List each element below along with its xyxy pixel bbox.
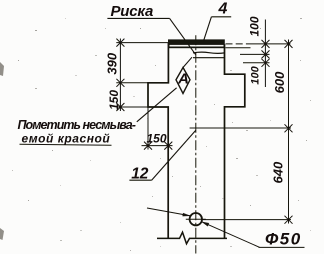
tick at (265.5,62.8) (262, 59, 270, 67)
hole horizontal center tick (186, 218, 206, 220)
F50 leader underline (259, 246, 305, 248)
svg-text:150: 150 (147, 132, 167, 146)
mark line (riska) at centerline, wavy (193, 52, 225, 53)
tick at (120.4,82.8) (116, 79, 124, 87)
diamond leader up to mark line (183, 57, 192, 67)
extension from wavy mark (240, 53, 270, 55)
extension line at hole center level (202, 219, 291, 221)
Riska label underline (107, 17, 169, 19)
tick at (120.4,107) (116, 103, 124, 111)
left dimension line (119, 39, 121, 112)
arrowhead upper-left of hole (183, 213, 190, 216)
svg-text:4: 4 (218, 1, 228, 18)
svg-text:Ф50: Ф50 (265, 229, 302, 248)
right 100s dimension line (264, 20, 266, 88)
12 label underline (129, 179, 151, 181)
svg-text:100: 100 (250, 65, 262, 84)
svg-text:Пометить несмыва-: Пометить несмыва- (18, 118, 136, 132)
diameter leader line upper-left segment (147, 208, 190, 216)
tick at (288.5,43.9) (285, 40, 293, 48)
tick at (168.3,145.6) (164, 142, 172, 150)
note underline (20, 143, 112, 146)
svg-text:емой красной: емой красной (22, 131, 111, 145)
diamond leader down to note (137, 88, 177, 122)
tick at (120.4,42.6) (116, 39, 124, 47)
tick at (288.5,128.3) (285, 124, 293, 132)
extension line from column top right (249, 43, 291, 45)
column bottom break line (157, 232, 227, 244)
scan artifact left edge lower (0, 228, 4, 240)
extension line corbel top (116, 82, 148, 84)
tick at (148,145.6) (144, 142, 152, 150)
riska bar (painted mark, item 4) (168, 39, 225, 48)
Riska leader to mark line (170, 18, 196, 54)
vertical centerline (axis 12) (195, 35, 197, 253)
extension line from column top right (dashed start) (226, 43, 250, 45)
extension lower mark (243, 62, 270, 64)
svg-text:600: 600 (272, 71, 287, 93)
600-640 dimension line (288, 40, 290, 224)
scan artifact left edge upper (0, 62, 4, 76)
item 4 leader to bar (203, 17, 211, 42)
hole circle (190, 213, 202, 225)
svg-text:390: 390 (105, 52, 120, 74)
svg-text:150: 150 (107, 90, 121, 110)
12 leader to axis (152, 130, 196, 180)
svg-text:А: А (177, 71, 189, 88)
extension line at axis cross level (190, 127, 291, 129)
extension line top of column (116, 42, 169, 44)
extension line corbel bottom (116, 106, 148, 108)
svg-text:Риска: Риска (111, 3, 154, 20)
second mark line (193, 57, 225, 59)
extension from bar bottom right (226, 47, 251, 49)
riska bar white streak (170, 45, 224, 47)
tick at (265.5,43.9) (262, 40, 270, 48)
150 horizontal dimension line (142, 145, 173, 147)
corbel corner extension down to 150 dim (147, 107, 149, 150)
mark flag diamond A (176, 68, 190, 94)
column outline left side (148, 43, 168, 239)
item 4 underline (211, 16, 231, 18)
tick at (265.5,54.4) (262, 50, 270, 58)
svg-text:100: 100 (248, 16, 262, 36)
svg-text:640: 640 (271, 161, 286, 183)
arrowhead lower-right of hole (202, 222, 209, 226)
svg-text:12: 12 (131, 165, 149, 182)
tick at (288.5,219.7) (285, 216, 293, 224)
diameter leader line lower-right segment (202, 222, 260, 248)
column outline right side (225, 44, 245, 238)
